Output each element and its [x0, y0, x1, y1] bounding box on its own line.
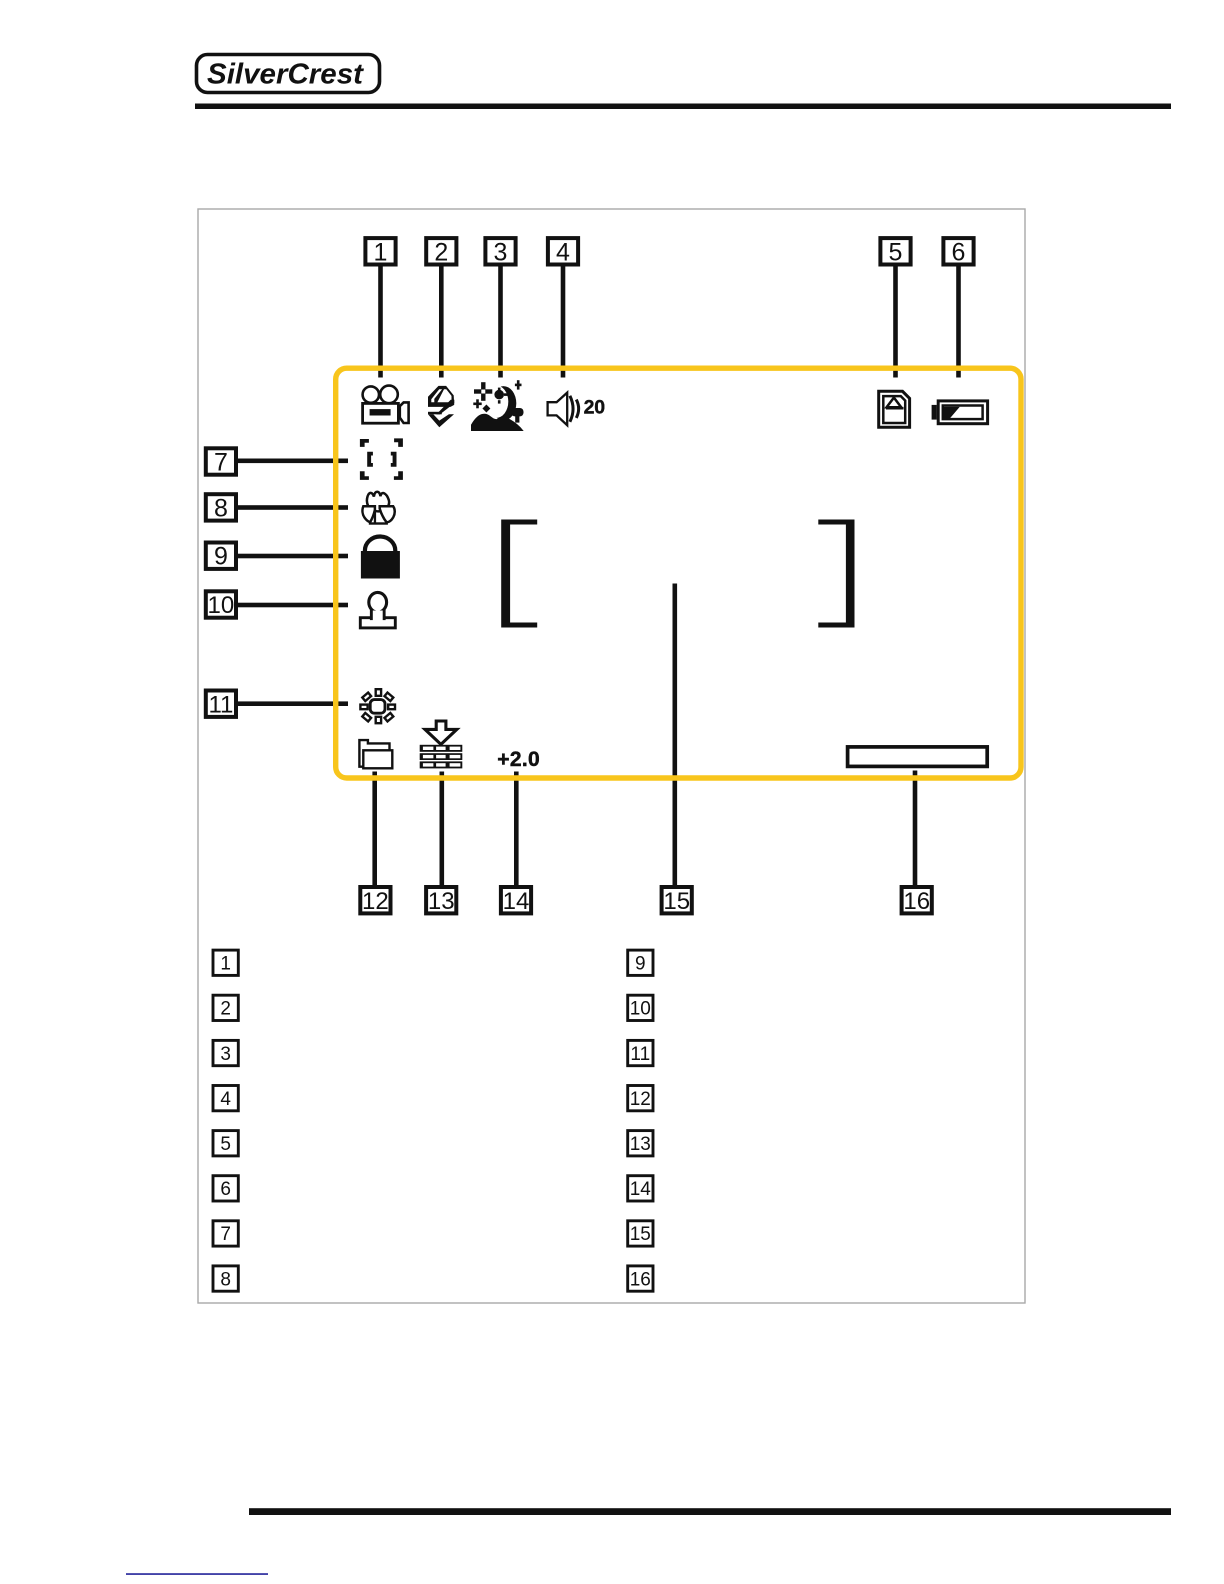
node callout 7 [206, 448, 236, 476]
svg-text:1: 1 [220, 954, 231, 975]
svg-text:12: 12 [362, 888, 389, 915]
svg-text:SilverCrest: SilverCrest [207, 59, 364, 91]
node callout 15 [662, 887, 692, 915]
node legend 5 [213, 1131, 238, 1156]
icon 6 battery level [932, 401, 988, 424]
svg-text:20: 20 [584, 397, 606, 419]
icon 2 flash off [428, 386, 454, 427]
wire callout 15 leader [673, 584, 678, 887]
node legend 9 [628, 950, 653, 975]
LCD screen frame (yellow) [336, 368, 1021, 778]
node legend 16 [628, 1266, 653, 1291]
svg-text:10: 10 [208, 592, 235, 619]
svg-text:6: 6 [220, 1179, 231, 1200]
footer link underline [126, 1573, 268, 1575]
focus bracket right [818, 520, 854, 628]
svg-text:16: 16 [630, 1269, 651, 1290]
node legend 12 [628, 1086, 653, 1111]
icon 4 volume (speaker) [548, 393, 606, 426]
node callout 9 [206, 543, 236, 571]
node legend 13 [628, 1131, 653, 1156]
node legend 14 [628, 1176, 653, 1201]
node callout 4 [548, 238, 578, 266]
icon 10 self-timer (person) [360, 592, 395, 628]
wire callout 1-6 leaders [378, 265, 383, 378]
node legend 7 [213, 1221, 238, 1246]
node legend 1 [213, 950, 238, 975]
node callout 10 [206, 591, 236, 619]
svg-text:5: 5 [220, 1134, 231, 1155]
svg-text:4: 4 [220, 1089, 231, 1110]
node legend 6 [213, 1176, 238, 1201]
svg-text:+2.0: +2.0 [497, 748, 540, 771]
wire callout 7-11 leaders [236, 459, 348, 464]
svg-text:8: 8 [220, 1269, 231, 1290]
SilverCrest logo [197, 55, 380, 93]
svg-text:15: 15 [630, 1224, 651, 1245]
focus bracket left [501, 520, 537, 628]
svg-text:7: 7 [220, 1224, 231, 1245]
svg-text:16: 16 [903, 888, 930, 915]
node callout 14 [501, 887, 531, 915]
node callout 6 [943, 238, 973, 266]
wire callout 12-14 leaders [372, 772, 377, 887]
wire callout 16 leader [913, 771, 918, 887]
node legend 3 [213, 1040, 238, 1065]
node callout 2 [426, 238, 456, 266]
svg-text:4: 4 [556, 238, 570, 266]
node callout 12 [360, 887, 390, 915]
zoom bar (white rect, item 16) [848, 747, 988, 767]
svg-text:7: 7 [214, 449, 228, 477]
node legend 8 [213, 1266, 238, 1291]
svg-text:14: 14 [630, 1179, 652, 1200]
node callout 3 [485, 238, 515, 266]
node callout 5 [880, 238, 910, 266]
svg-text:5: 5 [889, 238, 903, 266]
svg-text:15: 15 [663, 888, 690, 915]
top rule [195, 104, 1171, 110]
svg-text:11: 11 [208, 691, 233, 718]
svg-text:2: 2 [434, 238, 448, 266]
svg-text:14: 14 [503, 888, 530, 915]
icon 7 focus frame [360, 438, 403, 480]
svg-text:9: 9 [635, 954, 646, 975]
node callout 16 [902, 887, 932, 915]
svg-text:6: 6 [952, 238, 966, 266]
node legend 15 [628, 1221, 653, 1246]
node callout 13 [426, 887, 456, 915]
icon 12 playback folder [359, 740, 392, 768]
icon 8 macro (flower) [362, 492, 394, 525]
node legend 11 [628, 1040, 653, 1065]
node legend 4 [213, 1086, 238, 1111]
node legend 10 [628, 995, 653, 1020]
icon 1 video mode (movie camera) [363, 386, 409, 424]
node callout 1 [365, 238, 395, 266]
svg-text:11: 11 [630, 1044, 650, 1065]
icon 13 quality (arrow into bricks) [420, 721, 463, 768]
svg-text:1: 1 [374, 238, 388, 266]
svg-text:9: 9 [214, 543, 228, 571]
svg-text:13: 13 [428, 888, 455, 915]
icon 9 lock (AE lock) [361, 537, 400, 579]
svg-text:10: 10 [630, 999, 651, 1020]
svg-text:2: 2 [220, 999, 231, 1020]
icon 5 memory card [879, 391, 910, 427]
node legend 2 [213, 995, 238, 1020]
svg-text:3: 3 [220, 1044, 231, 1065]
bottom rule [249, 1508, 1171, 1515]
node callout 11 [206, 691, 236, 719]
svg-text:13: 13 [630, 1134, 651, 1155]
node callout 8 [206, 494, 236, 522]
svg-text:8: 8 [214, 494, 228, 522]
diagram frame [198, 209, 1025, 1303]
svg-text:12: 12 [630, 1089, 651, 1110]
svg-text:3: 3 [494, 238, 508, 266]
icon 3 night scene [471, 380, 524, 431]
icon 11 white balance (sun) [360, 689, 395, 723]
